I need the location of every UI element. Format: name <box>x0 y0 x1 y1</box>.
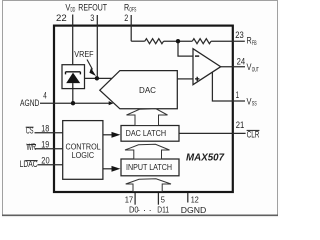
svg-text:17: 17 <box>125 195 134 205</box>
svg-text:OUT: OUT <box>252 66 259 73</box>
svg-text:21: 21 <box>236 120 245 130</box>
svg-text:4: 4 <box>43 91 47 101</box>
svg-text:OFS: OFS <box>129 7 136 14</box>
svg-text:19: 19 <box>41 139 49 149</box>
svg-text:REFOUT: REFOUT <box>78 3 107 13</box>
svg-text:. . .: . . . <box>138 203 152 213</box>
svg-text:WR: WR <box>27 142 37 152</box>
svg-text:MAX507: MAX507 <box>186 152 224 163</box>
svg-text:FB: FB <box>252 40 257 47</box>
svg-text:5: 5 <box>161 195 165 205</box>
svg-text:D11: D11 <box>157 205 169 215</box>
svg-text:3: 3 <box>90 13 94 24</box>
svg-text:AGND: AGND <box>20 98 40 108</box>
svg-text:2: 2 <box>124 13 128 24</box>
svg-text:20: 20 <box>41 156 49 166</box>
svg-text:12: 12 <box>191 195 199 205</box>
svg-text:DAC LATCH: DAC LATCH <box>126 129 167 138</box>
svg-text:DAC: DAC <box>139 85 156 95</box>
svg-text:LOGIC: LOGIC <box>72 151 95 160</box>
svg-text:SS: SS <box>252 101 257 108</box>
svg-text:23: 23 <box>235 30 244 40</box>
svg-text:24: 24 <box>237 56 246 66</box>
svg-text:22: 22 <box>56 13 67 24</box>
svg-text:DD: DD <box>71 7 76 14</box>
svg-text:VREF: VREF <box>74 49 93 59</box>
svg-text:18: 18 <box>41 123 49 133</box>
svg-text:INPUT LATCH: INPUT LATCH <box>126 163 172 172</box>
svg-text:DGND: DGND <box>181 205 207 215</box>
svg-text:1: 1 <box>236 90 240 101</box>
